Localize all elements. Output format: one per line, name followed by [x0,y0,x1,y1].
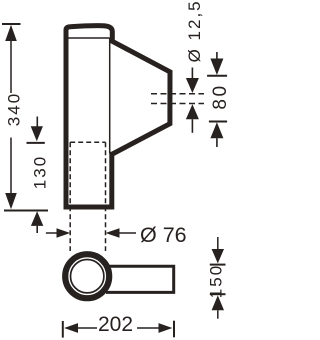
dimension O12,5 lower line [191,119,193,133]
svg-text:Ø 76: Ø 76 [140,223,187,247]
dimension 202 right tick [173,321,175,338]
dimension 80 up arrow [210,122,223,138]
bottom view arm rectangle [106,266,174,292]
socket depth dashed line [70,141,105,143]
hidden bore dashed left [69,142,71,251]
dimension 130 up arrow [31,211,43,226]
dimension 80 lower line [216,138,218,147]
outlet hole dashed line top [151,93,204,95]
dimension 340 top tick [2,23,21,25]
dimension 340 line lower [10,138,12,194]
bottom view ring outer [65,254,109,298]
dimension 340 down arrow [5,193,17,209]
pipe fitting outline (front view) [66,26,170,207]
dimension 202 right arrow [159,323,173,333]
dimension 202 left arrow [64,323,78,333]
dimension 150 down arrow [212,249,224,263]
dimension O12,5 up arrow [186,104,199,119]
dimension 340 up arrow [5,25,17,41]
pipe right inner edge (thin) [109,38,111,154]
svg-text:202: 202 [98,313,133,336]
dimension 340 line upper [10,41,12,93]
dimension 150 lower line [217,310,219,319]
dimension 80 bottom tick [209,121,227,123]
dimension 202 left tick [62,321,64,338]
dimension 130 lower line [36,226,38,233]
svg-text:340: 340 [5,92,24,126]
dimension 202 right line [137,327,159,329]
dimension 150 bottom tick [210,293,226,295]
dimension 150 top tick [210,264,226,266]
svg-text:80: 80 [210,83,230,109]
bottom view ring inner circle [71,260,104,293]
svg-text:130: 130 [30,155,49,189]
dimension O76 right arrow [106,228,120,238]
dimension 80 down arrow [210,59,223,76]
dimension 340 bottom tick [4,210,48,212]
dimension 150 upper line [217,237,219,249]
dimension O12,5 upper line [191,68,193,79]
hidden bore dashed right [105,142,107,251]
svg-text:Ø 12,5: Ø 12,5 [185,0,204,62]
dimension 130 down arrow [31,126,43,141]
dimension 130 upper line [36,117,38,128]
dimension O12,5 down arrow [186,78,199,93]
svg-text:150: 150 [206,264,225,298]
socket lip line (thin) [69,37,110,39]
outlet hole dashed line bottom [151,103,204,105]
dimension 150 up arrow [212,295,224,310]
dimension 80 top tick [207,75,227,77]
dimension O76 left arrow [57,228,71,238]
dimension 80 upper line [216,52,218,59]
dimension 130 top tick [27,142,45,144]
